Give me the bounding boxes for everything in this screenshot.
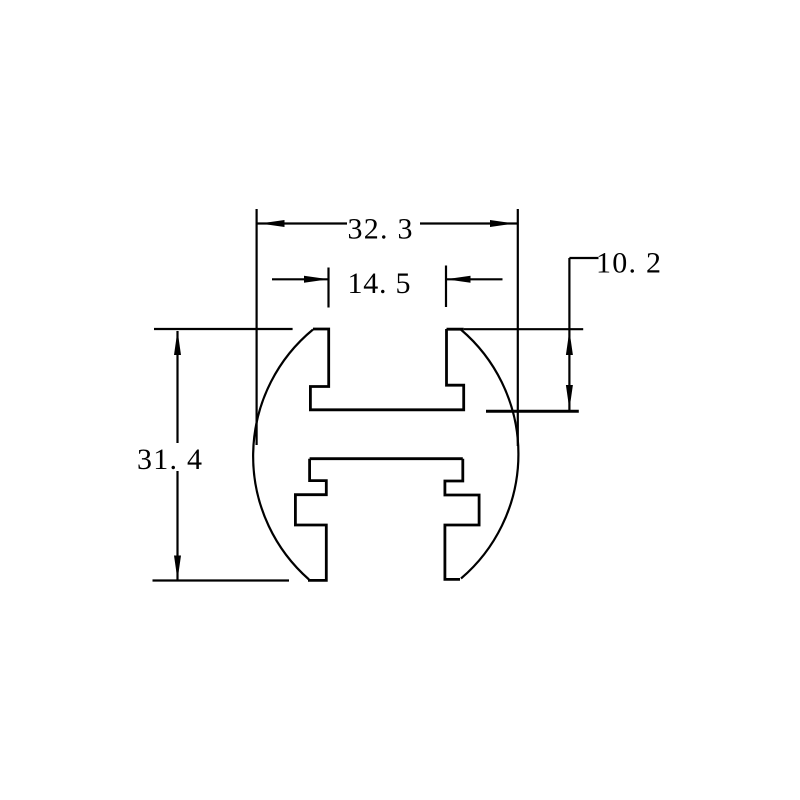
svg-text:32. 3: 32. 3 <box>348 213 413 246</box>
svg-text:10. 2: 10. 2 <box>596 247 661 280</box>
svg-text:14. 5: 14. 5 <box>348 267 411 300</box>
svg-text:31. 4: 31. 4 <box>137 443 202 476</box>
